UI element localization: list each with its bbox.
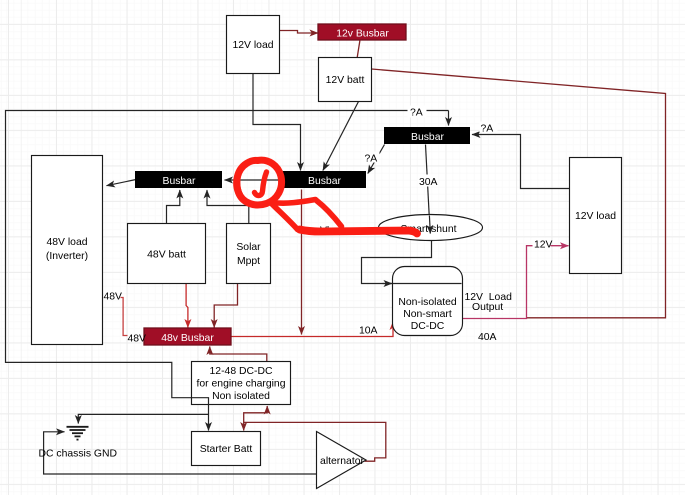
svg-text:?A: ?A (481, 124, 494, 135)
wire 30A overlay through shunt (428, 216, 431, 234)
wire starter batt to 12-48 dcdc (244, 406, 268, 422)
block Solar Mppt (227, 224, 271, 284)
annotation red thick underline to smart shunt (300, 230, 418, 234)
block 12V batt (319, 58, 372, 102)
svg-text:?A: ?A (410, 108, 423, 119)
label ?A diagonal (364, 152, 380, 165)
block 12v Busbar (318, 24, 406, 40)
wire 12v busbar to 12V batt (357, 41, 360, 58)
wire 10A 48v busbar to non-isolated dcdc (231, 322, 393, 337)
svg-text:48V: 48V (128, 334, 147, 345)
wire starter feed overlay through 12-48 box (192, 398, 209, 405)
wire diagonal top-right busbar to center busbar (?A) (368, 145, 385, 174)
svg-text:Output: Output (472, 302, 503, 313)
svg-text:Busbar: Busbar (411, 132, 444, 143)
label 12V Load Output (465, 292, 513, 313)
wire center busbar link to left busbar (225, 179, 283, 181)
ground chassis symbol (67, 427, 89, 440)
wire solar mppt top to left busbar (207, 190, 249, 224)
svg-text:12-48 DC-DC: 12-48 DC-DC (210, 366, 273, 377)
annotation red arrow tail fork (272, 200, 342, 230)
svg-text:DC chassis GND: DC chassis GND (39, 449, 118, 460)
svg-text:Busbar: Busbar (308, 176, 341, 187)
svg-text:(Inverter): (Inverter) (46, 251, 88, 262)
svg-text:12V load: 12V load (575, 211, 616, 222)
block smart shunt ellipse (379, 215, 483, 241)
svg-text:12V: 12V (534, 240, 553, 251)
wire 30A top-right busbar to smart shunt (426, 145, 431, 237)
wire alternator to starter batt (244, 422, 386, 461)
label 10A (358, 324, 379, 337)
svg-text:48V load: 48V load (46, 237, 87, 248)
wire left busbar to 48V load (107, 180, 137, 186)
svg-text:Non isolated: Non isolated (212, 391, 270, 402)
label 30A (418, 175, 439, 189)
block 12-48 dcdc engine charging (192, 362, 291, 405)
block 48V load inverter (32, 156, 103, 345)
wire solar mppt bottom to 48v busbar (214, 284, 237, 328)
label ?A right (480, 122, 498, 135)
svg-text:Non-smart: Non-smart (403, 309, 452, 320)
wire smart shunt line through dcdc overlay (393, 283, 462, 285)
block starter batt (192, 432, 261, 466)
block busbar top-right (384, 127, 470, 144)
wire 12V-load-top to center busbar (253, 74, 301, 171)
wire 12V batt feed right edge down to load output net (372, 69, 666, 318)
block 12V load right (570, 158, 622, 274)
block non-isolated dcdc (393, 267, 463, 336)
svg-text:48V batt: 48V batt (147, 250, 186, 261)
svg-text:12V batt: 12V batt (326, 75, 365, 86)
wire 12-48 dcdc to 48v busbar (210, 347, 267, 362)
annotation red inner hook (255, 172, 267, 196)
svg-text:12V load: 12V load (232, 40, 273, 51)
svg-text:40A: 40A (478, 332, 497, 343)
wire 12V-load-top to 12v busbar (280, 31, 319, 34)
block 48v Busbar (144, 328, 231, 345)
svg-text:48V: 48V (104, 292, 123, 303)
svg-text:Mppt: Mppt (237, 256, 260, 267)
wire long run starter-batt loop to top-right busbar (?A) (6, 111, 449, 431)
svg-text:Non-isolated: Non-isolated (398, 297, 457, 308)
svg-text:12v Busbar: 12v Busbar (336, 29, 389, 40)
wire smart shunt out to dcdc (362, 241, 462, 284)
label ?A top (408, 106, 427, 119)
wire 48V bracket label link (121, 298, 128, 336)
label 12V arrow (533, 238, 553, 251)
wire center busbar Vbatt down to 48v net (301, 190, 303, 335)
block 12V load top (227, 16, 280, 74)
wire ground tee from starter line (78, 414, 208, 423)
wire chassis loop: alternator body to ground (44, 432, 317, 474)
svg-text:for engine charging: for engine charging (197, 379, 286, 390)
svg-text:Solar: Solar (236, 242, 261, 253)
wire 48V batt top to left busbar (167, 190, 180, 224)
svg-text:Busbar: Busbar (163, 176, 196, 187)
block busbar left (135, 171, 222, 188)
svg-text:48v Busbar: 48v Busbar (161, 333, 214, 344)
wire 12v-batt diagonal to center busbar (323, 102, 359, 171)
svg-text:Starter Batt: Starter Batt (200, 444, 253, 455)
block busbar center (282, 171, 366, 188)
svg-text:10A: 10A (359, 326, 378, 337)
svg-text:30A: 30A (419, 177, 438, 188)
svg-text:alternator: alternator (320, 456, 364, 467)
alternator (317, 432, 367, 489)
wire 12V dcdc output to 12V-load-right (463, 246, 569, 319)
svg-text:?A: ?A (365, 154, 378, 165)
svg-text:DC-DC: DC-DC (411, 321, 445, 332)
block 48V batt (128, 224, 206, 284)
wire 48V batt bottom to 48v busbar (186, 284, 188, 328)
annotation red circle (237, 160, 282, 205)
wire top-right busbar right side to 12V-load-right (?A) (472, 135, 570, 189)
